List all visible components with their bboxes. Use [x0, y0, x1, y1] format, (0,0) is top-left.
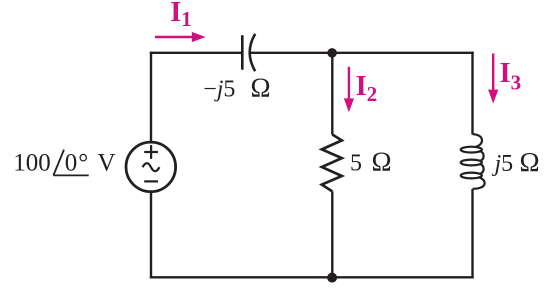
resistor 5 ohm [322, 135, 342, 192]
voltage source VS 100/0 V [126, 142, 176, 192]
inductor j5 coil [461, 134, 485, 189]
current arrow I2 [344, 67, 354, 113]
svg-text:5Ω: 5Ω [350, 146, 392, 176]
current arrow I3 [488, 54, 498, 104]
svg-text:j5Ω: j5Ω [492, 147, 540, 177]
wire top-left segment [150, 52, 243, 54]
svg-text:−j5Ω: −j5Ω [203, 73, 270, 103]
node top junction [327, 48, 337, 58]
svg-text:V: V [98, 149, 116, 176]
wire right lower [471, 189, 473, 279]
current arrow I1 [155, 32, 206, 42]
wire left lower [150, 192, 152, 279]
wire bottom [150, 276, 474, 278]
wire middle upper [331, 53, 333, 135]
node bottom junction [327, 273, 337, 283]
svg-text:I1: I1 [170, 0, 192, 31]
svg-text:100: 100 [13, 149, 51, 176]
svg-text:I2: I2 [356, 71, 378, 106]
wire left upper [150, 52, 152, 143]
capacitor -j5 [242, 34, 255, 71]
svg-text:0°: 0° [65, 149, 90, 176]
angle underline [53, 174, 88, 176]
wire right upper [471, 52, 473, 135]
angle slash [53, 150, 64, 176]
source label 100/0deg V [13, 149, 115, 176]
wire middle lower [331, 191, 333, 277]
svg-text:I3: I3 [500, 58, 522, 95]
wire top-right segment [250, 52, 474, 54]
